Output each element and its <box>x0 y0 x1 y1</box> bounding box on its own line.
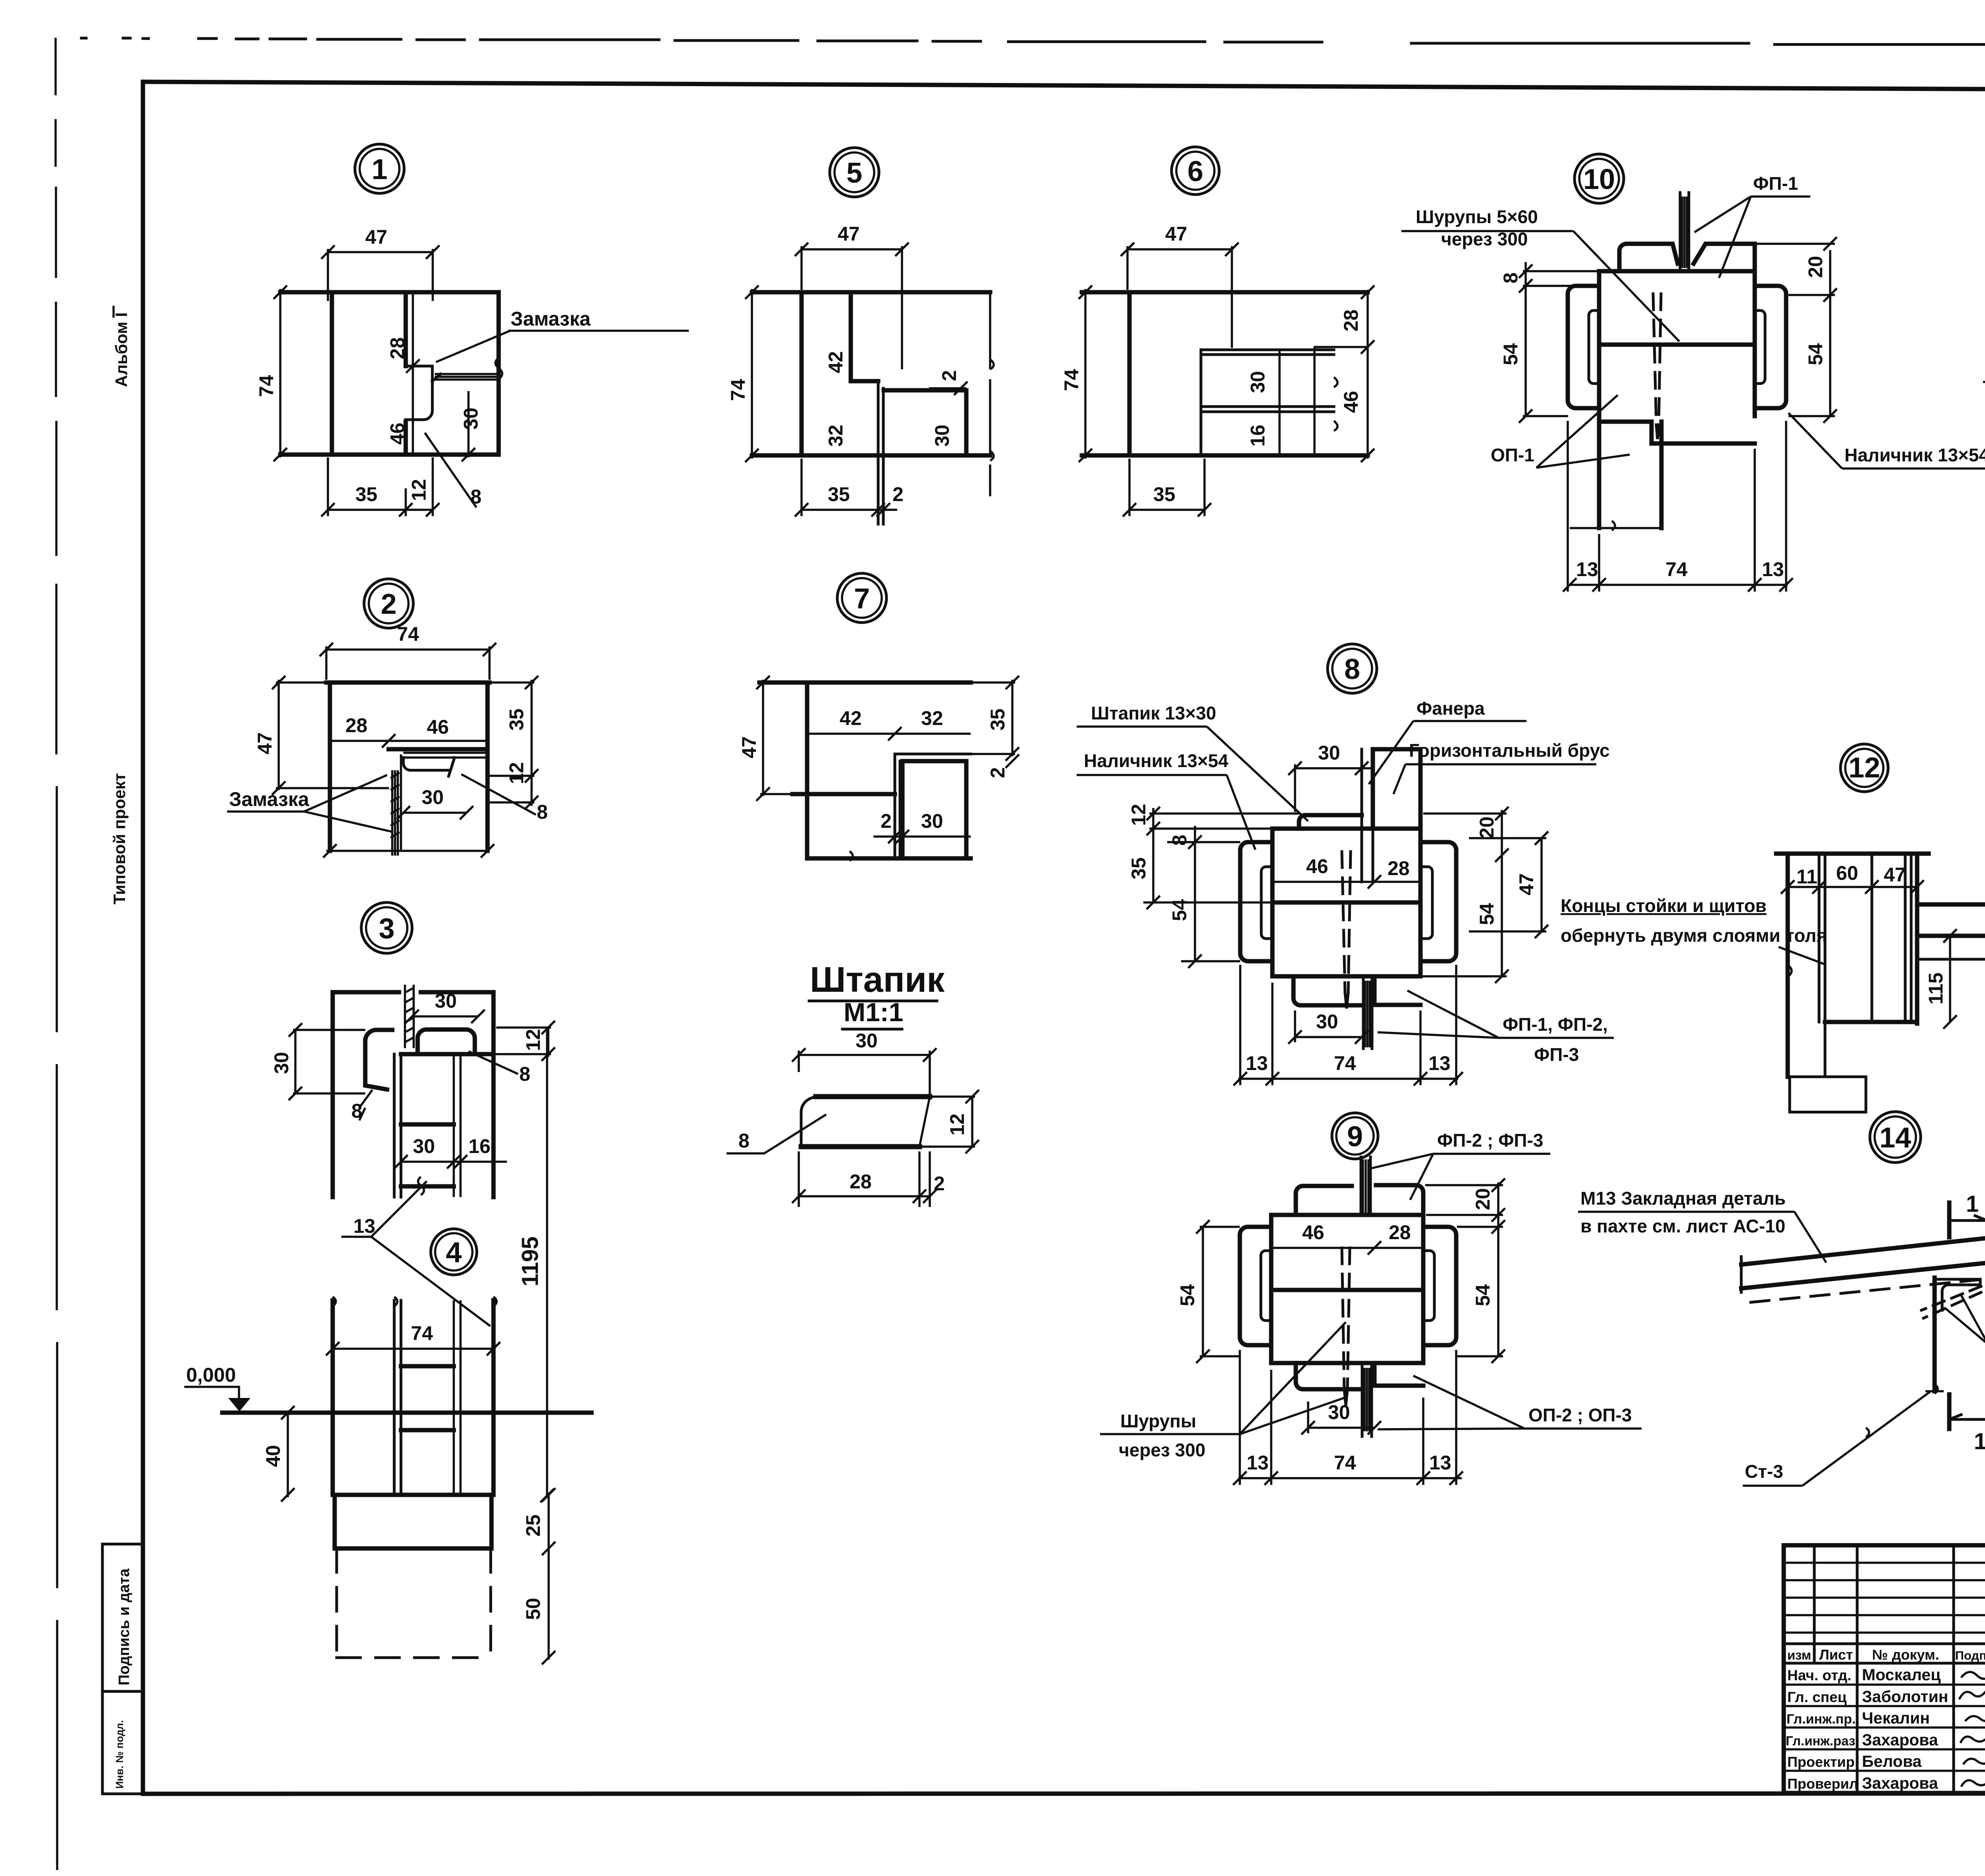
dim 40 <box>287 1413 289 1497</box>
foundation solid part <box>335 1495 491 1548</box>
svg-text:54: 54 <box>1472 1284 1494 1306</box>
dim 47 left <box>762 680 764 796</box>
svg-text:20: 20 <box>1472 1188 1494 1210</box>
ground line <box>222 1411 592 1415</box>
angle bracket on post <box>1937 1279 1980 1310</box>
svg-text:Заболотин: Заболотин <box>1862 1687 1948 1706</box>
svg-text:Белова: Белова <box>1862 1752 1922 1770</box>
lintel and wall outline <box>1082 292 1368 455</box>
svg-text:13: 13 <box>1429 1452 1451 1474</box>
central post panel <box>1271 1215 1423 1363</box>
svg-text:8: 8 <box>1499 272 1522 283</box>
bottom right panel piece <box>1374 976 1420 1005</box>
svg-text:13: 13 <box>1762 558 1784 580</box>
foundation <box>1788 1022 1866 1112</box>
svg-text:Захарова: Захарова <box>1862 1731 1939 1749</box>
svg-text:13: 13 <box>353 1215 376 1237</box>
dim 47 top <box>1127 248 1232 251</box>
svg-text:2: 2 <box>381 588 397 620</box>
svg-text:16: 16 <box>1247 424 1269 447</box>
svg-text:ФП-2 ; ФП-3: ФП-2 ; ФП-3 <box>1437 1130 1543 1151</box>
svg-text:30: 30 <box>460 407 482 430</box>
dim 30 right <box>467 391 470 457</box>
svg-text:1: 1 <box>1974 1429 1985 1454</box>
svg-text:74: 74 <box>397 623 419 645</box>
svg-text:30: 30 <box>931 424 953 447</box>
svg-text:2: 2 <box>938 370 960 381</box>
svg-text:Альбом I: Альбом I <box>112 312 131 387</box>
dim 30 bottom <box>1308 1427 1374 1429</box>
NODE9 <box>1100 1130 1642 1485</box>
bottom border <box>143 1793 1985 1794</box>
svg-text:47: 47 <box>365 226 387 248</box>
casing C profile <box>365 1030 392 1089</box>
svg-text:35: 35 <box>355 483 378 505</box>
svg-text:Шурупы 5×60: Шурупы 5×60 <box>1416 206 1538 227</box>
dims 46 28 <box>1271 1247 1423 1249</box>
left casing <box>1240 1227 1271 1345</box>
svg-text:47: 47 <box>1884 864 1906 886</box>
top cap bead <box>1299 815 1362 829</box>
svg-text:47: 47 <box>838 223 860 245</box>
svg-text:Ст-3: Ст-3 <box>1745 1461 1783 1482</box>
shurupy label leaders <box>1945 1295 1985 1344</box>
node4 mullion <box>394 1300 401 1495</box>
screw hatched at top <box>405 985 414 1048</box>
svg-text:Захарова: Захарова <box>1862 1774 1939 1792</box>
lintel and wall outline <box>752 292 990 455</box>
svg-text:ОП-1: ОП-1 <box>1491 445 1534 465</box>
svg-text:Шурупы: Шурупы <box>1120 1411 1196 1431</box>
horizontal beam panel <box>1373 749 1420 829</box>
svg-text:28: 28 <box>345 714 368 737</box>
dim 30 inner <box>1278 350 1281 455</box>
screw dashed <box>1342 852 1351 993</box>
header row lines <box>1784 1644 1985 1663</box>
node circle 5 <box>830 148 879 197</box>
svg-text:Проверил: Проверил <box>1787 1776 1858 1792</box>
section mark 1 top <box>1947 1203 1952 1237</box>
bottom dims 35 2 <box>802 509 897 511</box>
right casing <box>1420 842 1456 961</box>
top paper edge dashed line <box>81 38 1985 46</box>
svg-text:60: 60 <box>1836 862 1858 884</box>
NODE1 <box>255 226 689 517</box>
dim 12 right <box>971 1097 973 1147</box>
break mark bottom <box>850 851 853 861</box>
glass thin double line <box>895 754 971 858</box>
node4 wall edges <box>333 1300 493 1495</box>
dims 20 54 right <box>1829 250 1831 416</box>
svg-text:12: 12 <box>1848 752 1880 784</box>
svg-text:Фанера: Фанера <box>1416 698 1485 719</box>
dim 54 right <box>1497 1227 1499 1356</box>
svg-text:13: 13 <box>1576 558 1598 580</box>
dim 115 <box>1949 936 1951 1022</box>
svg-text:9: 9 <box>1347 1121 1363 1153</box>
bottom dims 13 74 13 <box>1238 1477 1462 1479</box>
lower panel OP-1 <box>1599 416 1755 528</box>
svg-text:Гл.инж.пр.: Гл.инж.пр. <box>1786 1712 1856 1727</box>
svg-text:Концы стойки и щитов: Концы стойки и щитов <box>1561 895 1767 916</box>
staff names <box>1786 1666 1948 1792</box>
dim 35 12 right <box>530 680 533 806</box>
left casing inner bead <box>1261 867 1272 939</box>
central post panel <box>1272 829 1420 976</box>
svg-text:Лист: Лист <box>1819 1647 1853 1663</box>
svg-text:3: 3 <box>379 913 395 945</box>
floor slab <box>1917 904 1985 936</box>
glazing bead profile <box>406 366 441 420</box>
dim 74 top <box>326 648 490 651</box>
dim 47 top <box>328 251 433 253</box>
left inner border <box>141 82 145 1794</box>
svg-text:8: 8 <box>1344 654 1360 685</box>
wall panel outline <box>280 292 499 455</box>
dim 35 12 bottom <box>328 509 433 511</box>
svg-text:28: 28 <box>1340 309 1362 332</box>
svg-text:М13 Закладная деталь: М13 Закладная деталь <box>1580 1188 1786 1209</box>
svg-text:12: 12 <box>946 1113 968 1136</box>
screw strip lower <box>1362 1363 1372 1436</box>
svg-text:8: 8 <box>519 1063 530 1085</box>
NODE14 <box>1578 1188 1985 1486</box>
svg-text:12: 12 <box>522 1029 544 1051</box>
dim 35 right <box>1011 680 1014 756</box>
mullion top edge <box>389 747 488 752</box>
svg-text:74: 74 <box>1334 1052 1356 1074</box>
SHTAPIK <box>727 960 979 1207</box>
svg-text:через 300: через 300 <box>1119 1440 1205 1460</box>
svg-text:32: 32 <box>825 424 847 447</box>
svg-text:28: 28 <box>850 1170 872 1193</box>
svg-text:30: 30 <box>856 1030 878 1052</box>
svg-text:Типовой проект: Типовой проект <box>110 773 129 904</box>
node circle 2 <box>364 579 413 628</box>
dim 47 left <box>278 680 280 790</box>
central panel <box>1599 244 1755 416</box>
svg-text:Москалец: Москалец <box>1862 1666 1941 1684</box>
svg-text:Наличник 13×54: Наличник 13×54 <box>1844 445 1985 465</box>
svg-text:54: 54 <box>1476 903 1498 925</box>
dim 54 left <box>1202 1227 1204 1356</box>
left outer dashed line <box>56 38 57 1870</box>
right casing <box>1755 286 1786 408</box>
dims 46 28 <box>1272 881 1420 883</box>
right dims 20 54 <box>1501 810 1503 976</box>
svg-text:74: 74 <box>1334 1452 1356 1474</box>
svg-text:8: 8 <box>738 1130 750 1152</box>
wall break mark <box>1788 965 1792 977</box>
screw strip top <box>1361 1157 1370 1215</box>
svg-text:30: 30 <box>422 786 444 808</box>
NODE6 <box>1060 223 1374 517</box>
left dims 8 54 <box>1194 826 1196 961</box>
node circle 1 <box>355 144 404 193</box>
node3 wall edges <box>333 992 493 1197</box>
dim 12 right <box>547 1028 549 1057</box>
svg-text:30: 30 <box>270 1052 293 1074</box>
svg-text:1195: 1195 <box>517 1236 543 1286</box>
svg-text:46: 46 <box>386 422 409 445</box>
header labels <box>1787 1647 1985 1663</box>
svg-text:32: 32 <box>921 707 943 729</box>
NODE1115 <box>1983 163 1985 651</box>
svg-text:30: 30 <box>1318 742 1340 764</box>
dim 74 left <box>751 289 753 459</box>
top cap right piece <box>1376 1185 1423 1215</box>
svg-text:54: 54 <box>1176 1284 1199 1306</box>
svg-text:10: 10 <box>1583 164 1615 195</box>
dim 47 top <box>802 248 902 251</box>
NODE5 <box>727 223 994 524</box>
dim 30 bottom <box>1295 1036 1362 1038</box>
svg-text:42: 42 <box>825 351 847 373</box>
door leaf <box>884 390 966 455</box>
block dims 30 16 <box>401 1161 507 1163</box>
svg-text:1: 1 <box>372 154 387 185</box>
svg-text:2: 2 <box>892 483 904 505</box>
glass double lines <box>454 1054 461 1197</box>
svg-text:47: 47 <box>1165 223 1187 245</box>
bottom of post <box>1825 1020 1917 1024</box>
svg-text:Проектир: Проектир <box>1787 1754 1855 1770</box>
dim 74 <box>333 1348 493 1350</box>
bottom cap left <box>1293 976 1360 1005</box>
svg-text:115: 115 <box>1925 972 1947 1005</box>
left dims 12 35 <box>1152 808 1154 902</box>
svg-text:54: 54 <box>1499 343 1522 365</box>
mid joint line <box>1272 900 1420 905</box>
svg-text:12: 12 <box>408 479 430 501</box>
mid joint line <box>1271 1288 1423 1292</box>
screws dashed diagonal <box>1921 1286 1981 1318</box>
svg-text:13: 13 <box>1247 1452 1269 1474</box>
wall panel outline <box>326 683 490 851</box>
svg-text:Штапик: Штапик <box>810 960 945 1000</box>
bottom dim line <box>326 850 490 852</box>
screw dashed <box>1653 294 1661 425</box>
NODE12 <box>1776 848 1985 1112</box>
bottom dim 35 <box>1129 509 1204 511</box>
svg-text:Замазка: Замазка <box>511 308 591 330</box>
NODE2 <box>227 623 548 858</box>
left casing <box>1568 286 1599 408</box>
svg-text:35: 35 <box>505 708 528 731</box>
NODE34 <box>184 985 592 1664</box>
bead rounded panel <box>418 1030 475 1054</box>
right casing <box>1423 1227 1456 1345</box>
svg-text:Гл.инж.раз: Гл.инж.раз <box>1786 1733 1855 1748</box>
top cap right piece <box>1694 244 1755 271</box>
svg-text:74: 74 <box>411 1322 433 1344</box>
svg-text:ОП-2 ; ОП-3: ОП-2 ; ОП-3 <box>1528 1405 1632 1425</box>
dim 2 small upper <box>929 387 966 389</box>
revision table columns <box>1814 1545 1985 1793</box>
svg-text:изм: изм <box>1787 1648 1811 1662</box>
svg-text:2: 2 <box>987 767 1009 778</box>
svg-text:30: 30 <box>435 990 457 1012</box>
mullion edge <box>404 292 408 366</box>
svg-text:47: 47 <box>1515 873 1538 895</box>
svg-text:Гл. спец: Гл. спец <box>1787 1689 1847 1705</box>
svg-text:46: 46 <box>1302 1221 1324 1244</box>
signature-date stamp box <box>102 1544 143 1691</box>
svg-text:35: 35 <box>1127 857 1150 879</box>
svg-text:ФП-3: ФП-3 <box>1534 1044 1579 1065</box>
top cap left <box>1296 1186 1352 1215</box>
plywood strip lower <box>1363 976 1372 1049</box>
svg-text:8: 8 <box>470 486 482 508</box>
glass pane double line <box>435 374 499 380</box>
svg-text:Подпись и дата: Подпись и дата <box>116 1568 133 1685</box>
svg-text:16: 16 <box>468 1135 491 1157</box>
svg-text:47: 47 <box>738 736 760 758</box>
mid joint line <box>1599 343 1755 347</box>
svg-text:М1:1: М1:1 <box>844 997 903 1027</box>
panel edges horizontal <box>401 1054 493 1186</box>
main top border <box>143 82 1985 91</box>
post bottom break <box>1925 1384 1944 1394</box>
CIRCLES <box>355 144 1985 1275</box>
svg-text:ФП-1, ФП-2,: ФП-1, ФП-2, <box>1503 1014 1608 1035</box>
svg-text:74: 74 <box>255 375 278 397</box>
svg-text:50: 50 <box>522 1598 544 1620</box>
left casing <box>1240 842 1272 961</box>
wall section outline <box>1776 854 1929 1077</box>
dims 28 46 inner <box>412 292 414 455</box>
glazing bead profile <box>403 753 488 758</box>
node circle 10 <box>1575 154 1624 203</box>
bead profile <box>816 1094 930 1099</box>
svg-text:40: 40 <box>262 1445 284 1467</box>
svg-text:6: 6 <box>1187 156 1203 187</box>
svg-text:в пахте см. лист АС-10: в пахте см. лист АС-10 <box>1580 1216 1785 1236</box>
right ext line with breaks <box>989 292 991 496</box>
dim 30 <box>799 1054 930 1056</box>
svg-text:35: 35 <box>828 483 850 505</box>
svg-text:1: 1 <box>1966 1191 1979 1217</box>
svg-text:0,000: 0,000 <box>186 1364 236 1386</box>
screw strip top <box>1680 193 1689 271</box>
dim 1195 right <box>546 1028 548 1496</box>
svg-text:42: 42 <box>840 707 862 729</box>
right dim 47 <box>1540 838 1543 931</box>
svg-text:Чекалин: Чекалин <box>1862 1709 1930 1727</box>
svg-text:28: 28 <box>1389 1221 1411 1244</box>
dims 28 46 inner <box>330 740 488 742</box>
inner layer lines <box>1819 854 1911 1022</box>
NODE8 <box>1077 698 1827 1085</box>
svg-text:46: 46 <box>1306 855 1328 877</box>
node circle 12 <box>1840 744 1888 792</box>
sloped beam <box>1741 1233 1985 1288</box>
lintel outline <box>759 683 971 858</box>
dims 28 46 right <box>1366 290 1369 459</box>
node circle 6 <box>1172 147 1219 195</box>
dim 74 left <box>279 289 281 457</box>
svg-text:Наличник 13×54: Наличник 13×54 <box>1084 750 1228 771</box>
dims 28 2 bottom <box>799 1195 930 1197</box>
svg-text:54: 54 <box>1168 899 1191 921</box>
svg-text:2: 2 <box>934 1172 945 1195</box>
TITLEBLOCK <box>1784 1545 1985 1868</box>
dims 25 50 right <box>547 1495 550 1660</box>
inventory stamp box <box>102 1691 143 1794</box>
svg-text:25: 25 <box>522 1514 544 1537</box>
panel double lines upper <box>1201 350 1334 455</box>
break mark right <box>495 358 502 379</box>
svg-text:46: 46 <box>1340 391 1362 413</box>
svg-text:12: 12 <box>505 762 528 784</box>
node circle 9 <box>1332 1113 1378 1159</box>
svg-text:№ докум.: № докум. <box>1872 1647 1939 1663</box>
svg-text:30: 30 <box>1247 371 1269 393</box>
svg-text:Замазка: Замазка <box>229 788 310 810</box>
svg-text:Подпись: Подпись <box>1955 1648 1985 1662</box>
glass pane strip vertical <box>392 754 401 856</box>
svg-text:11: 11 <box>1796 866 1817 888</box>
svg-text:Горизонтальный брус: Горизонтальный брус <box>1409 740 1610 761</box>
NODE7 <box>738 676 1019 861</box>
svg-text:20: 20 <box>1476 816 1498 839</box>
node circle 14 <box>1870 1112 1921 1163</box>
dim 74 left <box>1084 289 1087 459</box>
dim 30 top <box>1295 767 1371 769</box>
right casing inner bead <box>1420 867 1432 939</box>
bottom dims 13 74 13 <box>1570 584 1788 586</box>
svg-text:30: 30 <box>1328 1401 1350 1423</box>
dim 8 left <box>1524 262 1527 416</box>
name row lines <box>1784 1685 1985 1771</box>
svg-text:35: 35 <box>1153 483 1176 505</box>
break marks node3 bottom <box>418 1177 424 1195</box>
bottom dims 13 74 13 <box>1238 1078 1458 1080</box>
svg-text:2: 2 <box>881 810 892 832</box>
title block outer frame <box>1784 1545 1985 1793</box>
signatures squiggles <box>1959 1668 1985 1787</box>
section mark 1 bottom <box>1947 1394 1952 1429</box>
dims 2 30 bottom <box>873 835 971 838</box>
panel double lines lower <box>1201 407 1334 412</box>
node circle 3 <box>361 902 412 953</box>
thin frame edge <box>878 381 883 524</box>
dim 30 <box>403 812 466 814</box>
svg-text:5: 5 <box>846 157 862 189</box>
dims 11 60 47 <box>1788 886 1917 888</box>
svg-text:Штапик 13×30: Штапик 13×30 <box>1091 703 1216 723</box>
dim 30 left <box>294 1030 297 1093</box>
plywood strip <box>1362 749 1373 882</box>
node4 block lines <box>333 1366 493 1495</box>
svg-text:30: 30 <box>1316 1010 1338 1033</box>
foundation dashed part <box>337 1548 491 1658</box>
svg-text:4: 4 <box>446 1237 462 1269</box>
svg-text:13: 13 <box>1246 1052 1268 1074</box>
svg-text:28: 28 <box>386 337 409 359</box>
panel right edge breaks <box>1314 348 1337 457</box>
svg-text:30: 30 <box>921 810 943 832</box>
lower panel bottom dim w break <box>1570 521 1661 530</box>
top cap left piece <box>1619 244 1678 271</box>
node circle 8 <box>1328 644 1377 693</box>
svg-text:47: 47 <box>254 732 276 754</box>
SIDEBAR <box>102 306 143 1794</box>
svg-text:13: 13 <box>1428 1052 1451 1074</box>
svg-text:54: 54 <box>1804 343 1827 365</box>
svg-text:46: 46 <box>427 716 449 738</box>
svg-text:Нач. отд.: Нач. отд. <box>1787 1667 1852 1683</box>
